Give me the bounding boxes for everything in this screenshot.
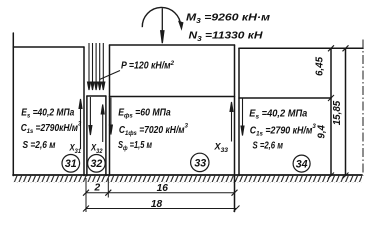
svg-text:2: 2: [93, 183, 100, 194]
leader line for p label: [100, 71, 121, 80]
svg-text:31: 31: [65, 158, 77, 170]
soil block 31 top edge: [13, 46, 84, 48]
force arrow X32 down (inside pier): [89, 97, 92, 135]
force arrow X33 up (inside block 33 right): [230, 102, 233, 142]
node circle 32: [88, 155, 106, 173]
svg-text:32: 32: [91, 158, 103, 170]
node circle 33: [191, 153, 209, 171]
block 33 top edge: [110, 44, 235, 46]
block 33 left edge: [109, 45, 111, 176]
svg-text:С1s =2790 кН/м3: С1s =2790 кН/м3: [250, 123, 316, 138]
svg-text:М3 =9260 кН·м: М3 =9260 кН·м: [186, 13, 271, 26]
dimension line 15,85: [345, 48, 347, 175]
node circle 31: [62, 155, 80, 173]
svg-text:N3 =11330 кН: N3 =11330 кН: [189, 31, 264, 44]
svg-text:Ефs =60 МПа: Ефs =60 МПа: [118, 108, 171, 120]
force arrow X31 up (inside block 31): [79, 99, 82, 149]
ground surface line: [13, 174, 362, 176]
force arrow X32 up (inside pier right): [101, 105, 104, 143]
block 34 divider line: [239, 97, 331, 99]
svg-text:P =120 кН/м2: P =120 кН/м2: [121, 60, 174, 71]
force arrow down inside block 34: [241, 98, 244, 136]
svg-text:34: 34: [296, 159, 308, 171]
dimension ticks right side: [328, 45, 349, 178]
svg-text:18: 18: [151, 199, 163, 210]
svg-text:Еs =40,2 МПа: Еs =40,2 МПа: [249, 108, 308, 120]
dimension extension line right of pier: [107, 178, 109, 198]
svg-text:С1s =2790кН/м3: С1s =2790кН/м3: [21, 121, 82, 136]
svg-text:S =2,6 м: S =2,6 м: [23, 140, 57, 151]
svg-text:16: 16: [157, 183, 169, 194]
block 34 top edge extended right: [239, 47, 363, 49]
svg-text:6,45: 6,45: [315, 56, 326, 76]
block 33 right edge extended to dimension line: [234, 45, 236, 212]
block 34 left edge: [238, 48, 240, 175]
svg-text:X31: X31: [69, 143, 82, 156]
svg-text:S =2,6 м: S =2,6 м: [253, 141, 284, 152]
force arrow down inside block 33 left: [109, 98, 112, 135]
pier 32 right edge: [105, 96, 107, 176]
dimension extension line left of pier: [85, 178, 87, 212]
svg-text:33: 33: [194, 157, 206, 169]
dimension line 18: [86, 208, 237, 210]
svg-text:15,85: 15,85: [332, 100, 343, 125]
distributed load p arrows: [88, 43, 105, 90]
moment M3 arc arrow: [142, 7, 180, 27]
block 34 right edge / dimension line 6,45-9,4: [330, 48, 332, 175]
pier 32 top edge: [87, 95, 106, 97]
right axis dash-dot line: [362, 40, 364, 176]
left retaining wall line: [12, 33, 14, 176]
dimension ticks bottom: [83, 190, 240, 212]
node circle 34: [293, 155, 310, 172]
svg-text:X33: X33: [214, 142, 229, 155]
block 33 divider line: [110, 96, 235, 98]
ground hatching: [13, 176, 362, 182]
pier 32 left edge: [86, 96, 88, 176]
soil block 31 right edge: [83, 47, 85, 176]
force N3 vertical arrow: [161, 8, 164, 43]
svg-text:X32: X32: [90, 143, 103, 156]
dimension line 2 and 16: [86, 192, 235, 194]
svg-text:С1фs =7020 кН/м3: С1фs =7020 кН/м3: [119, 123, 188, 138]
svg-text:Sф =1,5 м: Sф =1,5 м: [118, 140, 153, 152]
svg-text:Еs =40,2 МПа: Еs =40,2 МПа: [21, 107, 74, 119]
svg-text:9,4: 9,4: [317, 124, 328, 138]
